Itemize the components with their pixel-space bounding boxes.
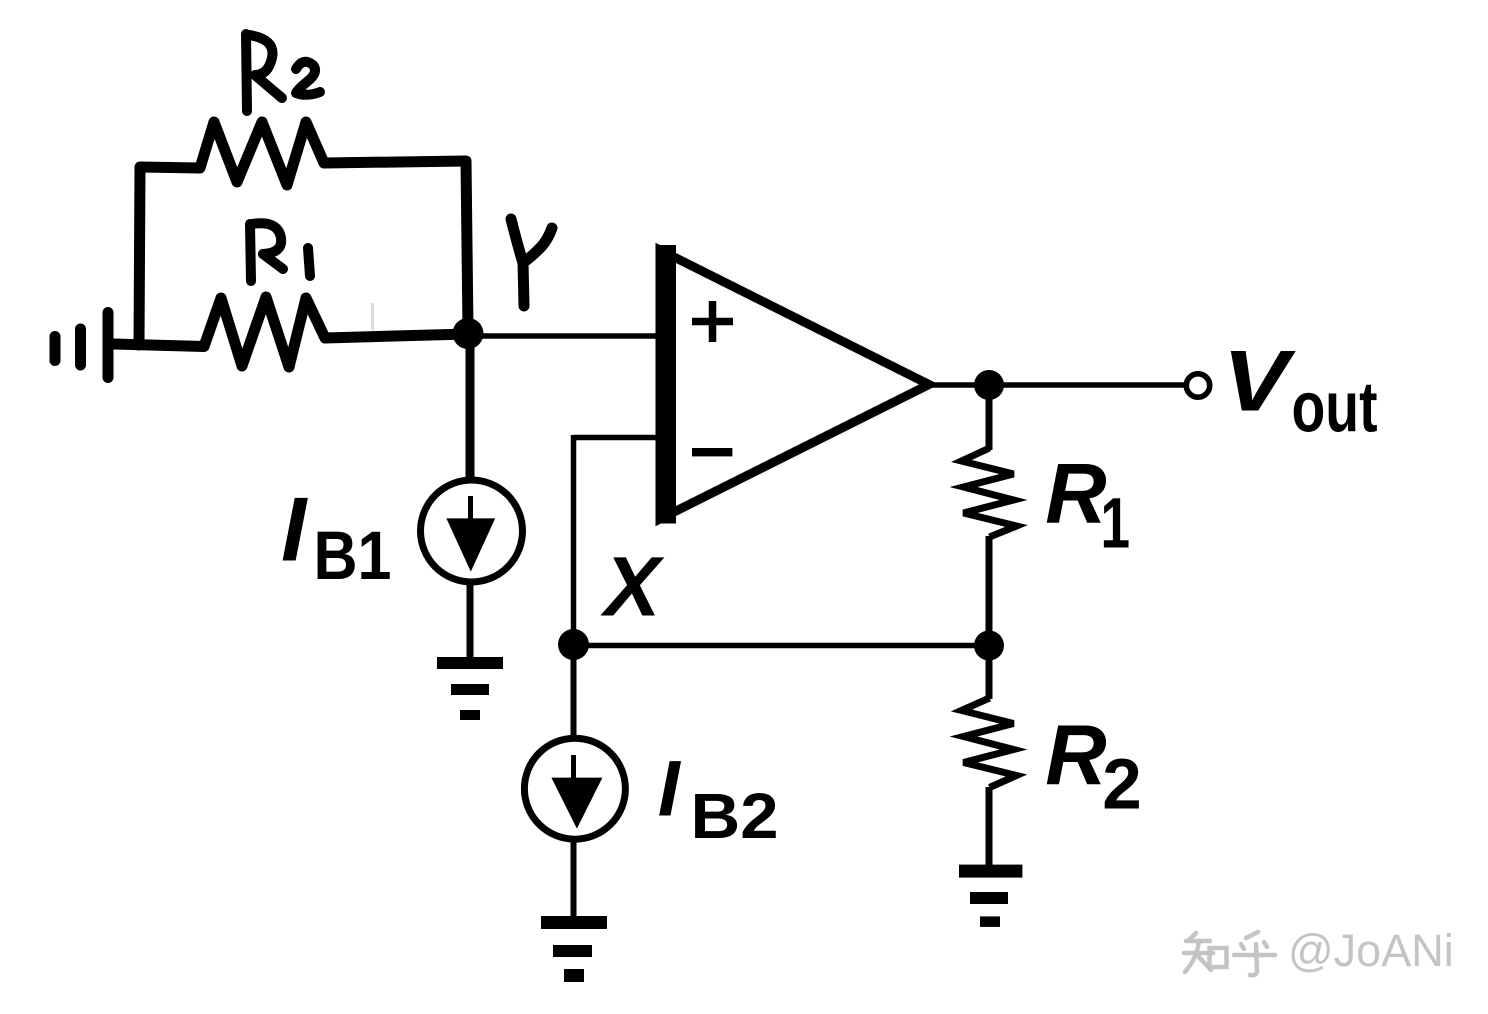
svg-text:R: R <box>1045 709 1106 804</box>
svg-text:@JoANi: @JoANi <box>1288 925 1454 976</box>
svg-text:X: X <box>600 540 665 634</box>
svg-text:R: R <box>1045 447 1106 542</box>
svg-text:B2: B2 <box>691 780 779 852</box>
svg-text:B1: B1 <box>314 517 392 594</box>
svg-text:1: 1 <box>1101 485 1131 564</box>
svg-text:V: V <box>1223 334 1297 430</box>
svg-text:2: 2 <box>1102 746 1142 825</box>
svg-text:I: I <box>658 744 682 833</box>
svg-text:I: I <box>281 480 308 581</box>
svg-text:out: out <box>1292 368 1378 448</box>
